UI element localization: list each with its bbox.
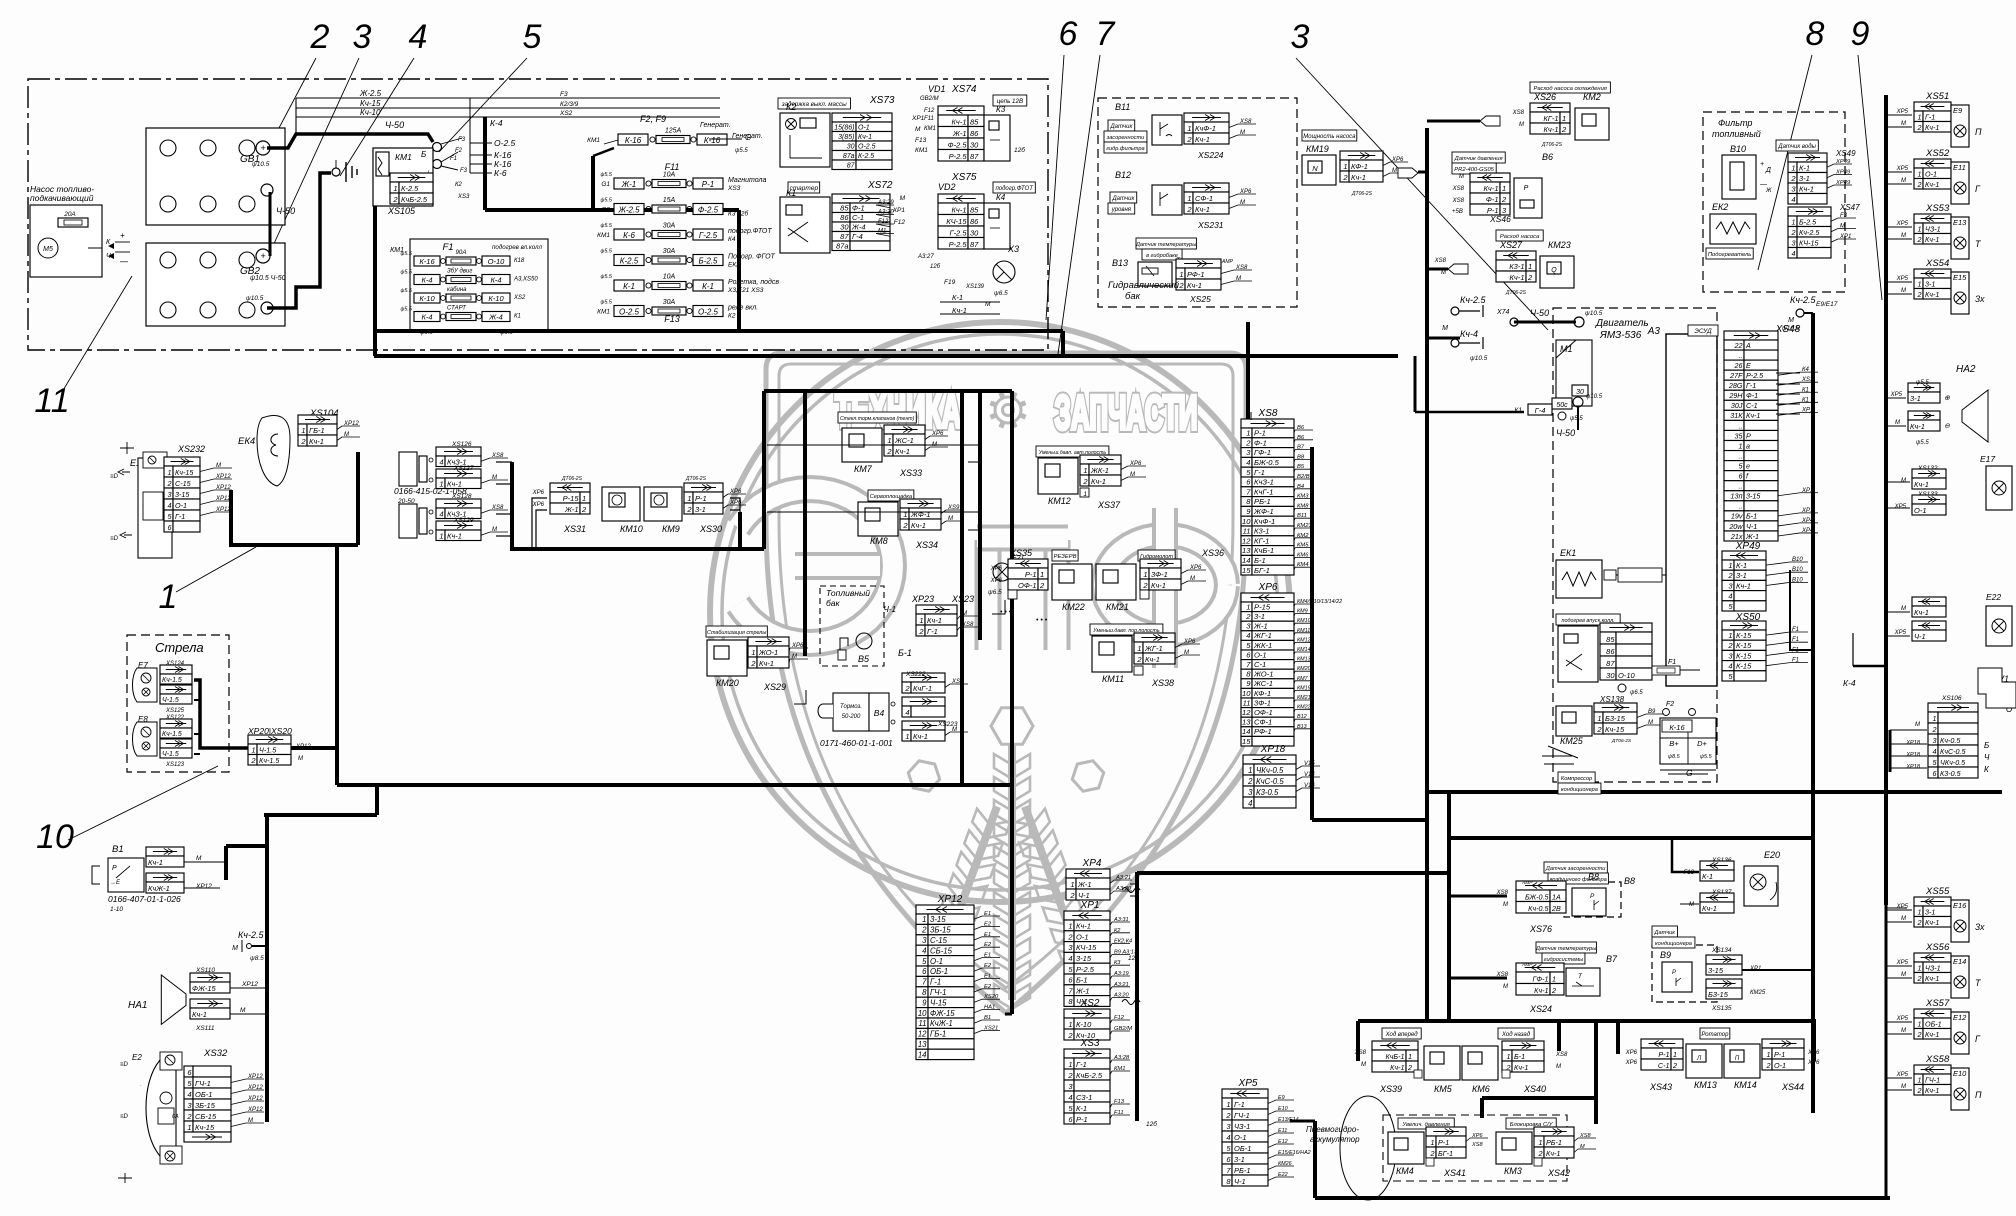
svg-text:XS52: XS52 [1925, 148, 1950, 159]
svg-text:Топливный: Топливный [826, 588, 870, 598]
svg-text:Кч-1: Кч-1 [309, 437, 324, 446]
svg-text:М: М [1901, 233, 1906, 239]
svg-text:4: 4 [439, 457, 443, 466]
svg-text:К-1: К-1 [1076, 1104, 1087, 1113]
svg-text:М: М [1689, 902, 1694, 908]
svg-text:F3: F3 [1840, 213, 1848, 219]
svg-text:К-15: К-15 [1736, 662, 1752, 671]
svg-text:КМ8: КМ8 [1297, 503, 1309, 509]
svg-text:87: 87 [847, 162, 856, 169]
svg-text:35: 35 [1735, 431, 1744, 440]
svg-text:К-6: К-6 [623, 231, 635, 240]
svg-text:К4: К4 [728, 236, 736, 243]
svg-text:XS58: XS58 [1925, 1054, 1950, 1065]
svg-text:КМ1: КМ1 [597, 309, 610, 316]
svg-text:ЖФ-1: ЖФ-1 [1253, 507, 1274, 516]
svg-text:Е11: Е11 [1278, 1128, 1287, 1134]
svg-text:3: 3 [922, 936, 927, 945]
svg-text:А3: А3 [1647, 326, 1661, 337]
svg-text:F12: F12 [1114, 1015, 1125, 1021]
svg-text:Ж-1: Ж-1 [1075, 986, 1090, 995]
svg-text:Двигатель: Двигатель [1595, 318, 1649, 329]
svg-text:1: 1 [1507, 1052, 1511, 1061]
svg-text:в гидробаке: в гидробаке [1146, 253, 1178, 259]
svg-text:1: 1 [1070, 880, 1074, 889]
svg-text:ХР5: ХР5 [1894, 630, 1907, 636]
svg-text:Ж-4: Ж-4 [488, 313, 503, 322]
svg-text:Ж-4: Ж-4 [851, 222, 866, 231]
svg-text:Р-1: Р-1 [1025, 570, 1037, 579]
svg-text:О-1: О-1 [930, 957, 943, 966]
svg-text:1: 1 [168, 468, 172, 477]
svg-text:13: 13 [918, 1040, 927, 1049]
svg-text:VD2: VD2 [938, 182, 956, 192]
svg-text:4: 4 [1068, 1093, 1072, 1102]
svg-text:В10: В10 [1792, 577, 1803, 583]
svg-text:30А: 30А [663, 248, 676, 255]
svg-text:≡D: ≡D [120, 1114, 129, 1120]
svg-text:Д: Д [1765, 167, 1771, 174]
svg-text:F19: F19 [944, 279, 956, 286]
svg-text:бак: бак [1125, 291, 1141, 302]
svg-text:БГ-1: БГ-1 [1438, 1149, 1453, 1158]
svg-text:F1: F1 [1792, 658, 1799, 664]
svg-text:13: 13 [1242, 546, 1251, 555]
svg-text:Кч-1: Кч-1 [447, 531, 462, 540]
svg-text:Кч-1: Кч-1 [1195, 205, 1210, 214]
svg-text:⊕: ⊕ [1944, 395, 1950, 402]
svg-text:30: 30 [970, 140, 979, 149]
svg-text:ЖО-1: ЖО-1 [758, 648, 778, 657]
svg-text:Ж-1: Ж-1 [564, 505, 579, 514]
svg-text:Кч-1: Кч-1 [1925, 290, 1939, 299]
svg-text:Ж-1: Ж-1 [621, 180, 636, 189]
svg-text:XS105: XS105 [387, 206, 416, 216]
svg-text:С-1: С-1 [1254, 660, 1266, 669]
svg-text:Ч-1.5: Ч-1.5 [162, 697, 179, 704]
svg-text:М: М [1459, 174, 1464, 180]
svg-text:2: 2 [1067, 1031, 1073, 1040]
svg-text:Е7: Е7 [138, 661, 148, 670]
svg-text:10: 10 [918, 1009, 927, 1018]
svg-text:Ф-1: Ф-1 [1746, 391, 1758, 400]
svg-text:Е9/Е17: Е9/Е17 [1816, 301, 1838, 308]
svg-text:В8: В8 [1624, 876, 1635, 886]
svg-text:К-16: К-16 [1669, 723, 1685, 732]
svg-text:ХР4: ХР4 [1801, 528, 1814, 534]
svg-text:2: 2 [1672, 1061, 1677, 1070]
svg-text:Е15/Е16/НА2: Е15/Е16/НА2 [1278, 1150, 1311, 1156]
svg-text:ХР5: ХР5 [1896, 1016, 1909, 1022]
svg-text:2: 2 [186, 1112, 192, 1121]
svg-text:В9: В9 [1660, 950, 1671, 960]
svg-text:КчС-0.5: КчС-0.5 [1256, 777, 1284, 786]
svg-text:Датчик: Датчик [1109, 124, 1133, 130]
svg-text:XS44: XS44 [1781, 1082, 1804, 1092]
svg-text:2: 2 [581, 505, 587, 514]
svg-text:К3-0.5: К3-0.5 [1256, 788, 1279, 797]
svg-text:Б3-15: Б3-15 [1708, 990, 1729, 999]
svg-text:Ч-50: Ч-50 [276, 206, 295, 216]
svg-text:1: 1 [887, 436, 891, 445]
svg-text:G: G [745, 133, 751, 142]
svg-text:1: 1 [1343, 162, 1347, 171]
svg-text:2: 2 [1766, 1061, 1771, 1070]
svg-text:4: 4 [905, 708, 909, 717]
svg-text:..: .. [1739, 351, 1743, 360]
svg-text:F2: F2 [1666, 701, 1674, 708]
svg-text:М: М [1648, 720, 1653, 726]
svg-text:1: 1 [1226, 1100, 1230, 1109]
svg-text:А3:21: А3:21 [1115, 875, 1131, 881]
svg-text:12б: 12б [930, 264, 941, 270]
svg-text:4: 4 [1728, 662, 1732, 671]
svg-text:1: 1 [1918, 169, 1922, 178]
svg-text:КМ6: КМ6 [1472, 1084, 1490, 1094]
svg-text:КМ25: КМ25 [1750, 990, 1766, 996]
svg-text:Ч-1.5: Ч-1.5 [259, 745, 277, 754]
svg-text:2: 2 [1538, 1149, 1543, 1158]
svg-text:XS127: XS127 [453, 465, 474, 472]
svg-text:2: 2 [902, 521, 908, 530]
svg-text:О-2.5: О-2.5 [619, 308, 640, 317]
svg-text:XS134: XS134 [1711, 947, 1732, 954]
svg-text:Ж-1: Ж-1 [1253, 622, 1268, 631]
svg-text:А3:28: А3:28 [1113, 1055, 1130, 1061]
svg-text:ХР5: ХР5 [1896, 221, 1909, 227]
svg-text:Кч-1: Кч-1 [192, 1010, 207, 1019]
svg-text:М: М [1190, 576, 1195, 582]
svg-text:4: 4 [1792, 249, 1796, 258]
svg-text:ХР18: ХР18 [1905, 740, 1921, 746]
svg-text:Е12: Е12 [1953, 1013, 1967, 1022]
svg-text:К3-0.5: К3-0.5 [1940, 769, 1962, 778]
svg-text:ГФ-1: ГФ-1 [1532, 974, 1548, 983]
svg-text:• • •: • • • [1036, 617, 1048, 624]
svg-text:XS40: XS40 [1523, 1084, 1546, 1094]
svg-text:М1: М1 [878, 229, 886, 235]
svg-text:М: М [298, 756, 303, 762]
svg-text:реле вкл.: реле вкл. [727, 305, 758, 312]
svg-text:КчГ-1: КчГ-1 [913, 684, 932, 693]
svg-text:АМР: АМР [1521, 880, 1533, 886]
svg-text:86: 86 [970, 217, 979, 226]
svg-text:2: 2 [686, 505, 692, 514]
svg-text:ХР12: ХР12 [247, 1107, 263, 1113]
svg-text:XS75: XS75 [951, 172, 977, 183]
svg-text:Е1: Е1 [984, 932, 991, 938]
svg-text:Р: Р [1590, 893, 1595, 900]
svg-text:С3-1: С3-1 [1076, 1093, 1092, 1102]
svg-text:4: 4 [168, 501, 172, 510]
svg-text:2: 2 [1791, 228, 1796, 237]
svg-text:ЕК2: ЕК2 [1712, 202, 1728, 212]
svg-text:6: 6 [922, 967, 927, 976]
svg-text:Кч-1: Кч-1 [1484, 184, 1499, 193]
svg-text:XS33: XS33 [899, 468, 922, 478]
svg-text:Р: Р [1524, 185, 1529, 192]
svg-text:Е2: Е2 [984, 942, 992, 948]
svg-text:ЖГ-1: ЖГ-1 [1144, 644, 1163, 653]
svg-text:13п: 13п [1731, 492, 1743, 501]
svg-text:—: — [1759, 181, 1768, 188]
svg-text:КМ1: КМ1 [1114, 1066, 1125, 1072]
svg-text:Кч-1: Кч-1 [1390, 1063, 1404, 1072]
svg-text:КМ7: КМ7 [1297, 676, 1309, 682]
svg-text:2: 2 [1501, 195, 1507, 204]
svg-text:А: А [1745, 341, 1751, 350]
svg-text:XS55: XS55 [1925, 886, 1950, 897]
svg-text:11: 11 [1243, 698, 1251, 707]
svg-text:XS111: XS111 [195, 1025, 215, 1032]
svg-text:М: М [1901, 1084, 1906, 1090]
svg-text:КМ10: КМ10 [1297, 618, 1311, 624]
svg-text:1: 1 [1137, 644, 1141, 653]
svg-text:1: 1 [1431, 1138, 1435, 1147]
svg-text:Кч-1: Кч-1 [1151, 581, 1166, 590]
svg-text:М: М [1519, 122, 1524, 128]
svg-text:Б-1: Б-1 [1746, 512, 1757, 521]
svg-text:2: 2 [1067, 1071, 1073, 1080]
svg-text:ГЧ-1: ГЧ-1 [1234, 1111, 1250, 1120]
svg-text:1: 1 [1728, 561, 1732, 570]
svg-text:КМ19: КМ19 [1297, 685, 1311, 691]
svg-text:ХР1: ХР1 [911, 115, 925, 122]
svg-text:Кч-0.5: Кч-0.5 [1528, 904, 1549, 913]
svg-text:..: .. [1739, 482, 1743, 491]
svg-text:2: 2 [1917, 180, 1922, 189]
svg-text:Г-1: Г-1 [927, 627, 938, 636]
svg-text:2: 2 [1727, 641, 1733, 650]
svg-text:П: П [1975, 1090, 1982, 1100]
svg-text:ХР6: ХР6 [1183, 639, 1196, 645]
svg-text:12б: 12б [1128, 954, 1139, 962]
svg-text:О-1: О-1 [175, 501, 187, 510]
svg-text:А3:31: А3:31 [1113, 917, 1129, 923]
svg-text:Кч-1: Кч-1 [952, 117, 967, 126]
svg-text:XS8: XS8 [1452, 186, 1465, 192]
svg-text:КМ9: КМ9 [662, 524, 680, 534]
svg-text:1: 1 [252, 745, 256, 754]
svg-text:1: 1 [301, 426, 305, 435]
svg-text:СБ-15: СБ-15 [195, 1112, 217, 1121]
svg-text:ХР6: ХР6 [1807, 1060, 1820, 1066]
svg-text:ХР6: ХР6 [1625, 1050, 1638, 1056]
svg-text:ХР5: ХР5 [1238, 1078, 1258, 1089]
svg-text:Кч-1: Кч-1 [1546, 1149, 1560, 1158]
svg-text:XS73: XS73 [869, 95, 895, 106]
svg-text:ХР18: ХР18 [1905, 752, 1921, 758]
svg-text:О-2.5: О-2.5 [698, 308, 719, 317]
svg-text:3-1: 3-1 [1234, 1155, 1245, 1164]
svg-text:А3:21: А3:21 [1113, 982, 1129, 988]
svg-text:XS29: XS29 [763, 682, 786, 692]
svg-text:XS34: XS34 [915, 540, 938, 550]
svg-text:А3:19: А3:19 [1113, 971, 1129, 977]
svg-text:XS2: XS2 [559, 110, 573, 117]
svg-text:М: М [1580, 1144, 1585, 1150]
svg-text:4: 4 [1933, 747, 1937, 756]
svg-text:ХР5: ХР5 [1894, 504, 1907, 510]
svg-text:цепь 12В: цепь 12В [997, 98, 1023, 105]
svg-text:1-10: 1-10 [110, 906, 123, 913]
svg-text:F12: F12 [878, 219, 889, 225]
svg-text:А3:27: А3:27 [917, 254, 934, 260]
svg-text:ЯМЗ-536: ЯМЗ-536 [1599, 330, 1642, 341]
svg-text:3(85): 3(85) [838, 134, 854, 141]
svg-text:1: 1 [1933, 714, 1937, 723]
svg-text:XS31: XS31 [563, 524, 586, 534]
svg-text:1: 1 [1040, 570, 1044, 579]
svg-text:30: 30 [847, 143, 855, 150]
svg-text:Кч-1: Кч-1 [1914, 608, 1929, 617]
svg-text:4: 4 [1791, 195, 1795, 204]
svg-text:М: М [1901, 916, 1906, 922]
svg-text:10А: 10А [663, 274, 676, 281]
svg-text:Кч-1: Кч-1 [1799, 184, 1814, 193]
svg-text:ХР1: ХР1 [1801, 488, 1813, 494]
svg-text:ψ6.5: ψ6.5 [1630, 690, 1643, 696]
svg-text:4: 4 [1246, 631, 1250, 640]
svg-text:2: 2 [1136, 655, 1142, 664]
svg-text:ХР12: ХР12 [937, 894, 963, 905]
svg-text:ЧЗ-1: ЧЗ-1 [1925, 224, 1941, 233]
svg-text:Кч-2.5: Кч-2.5 [1799, 228, 1820, 237]
svg-text:В10: В10 [1792, 557, 1803, 563]
svg-text:ψ6.5: ψ6.5 [994, 290, 1008, 297]
svg-text:Е10: Е10 [1953, 1069, 1967, 1078]
svg-text:F11: F11 [665, 162, 680, 172]
svg-text:Р-1: Р-1 [1438, 1138, 1449, 1147]
svg-text:Р-2.5: Р-2.5 [1076, 965, 1095, 974]
svg-text:3х: 3х [1975, 922, 1985, 932]
svg-text:ЕК2: ЕК2 [728, 262, 740, 269]
svg-text:КМ1: КМ1 [915, 147, 928, 154]
svg-text:К2: К2 [728, 313, 736, 320]
svg-text:2: 2 [1917, 1086, 1922, 1095]
svg-text:1: 1 [1918, 1075, 1922, 1084]
svg-text:Е10: Е10 [1278, 1106, 1288, 1112]
svg-text:О-1: О-1 [858, 124, 870, 131]
svg-text:2: 2 [921, 926, 927, 935]
svg-text:Е1: Е1 [984, 911, 991, 917]
svg-text:КМ1: КМ1 [924, 126, 936, 132]
svg-text:А3:29: А3:29 [877, 200, 894, 206]
svg-text:М: М [1915, 722, 1920, 728]
svg-text:1: 1 [439, 531, 443, 540]
svg-text:Кч-1: Кч-1 [1510, 273, 1525, 282]
svg-text:ХР12: ХР12 [195, 883, 212, 890]
svg-text:XS123: XS123 [165, 762, 185, 768]
svg-text:XS32: XS32 [203, 1048, 228, 1059]
svg-text:12: 12 [1242, 708, 1251, 717]
svg-text:КФ-1: КФ-1 [1254, 689, 1271, 698]
svg-text:К1: К1 [514, 314, 521, 320]
svg-text:КГ-1: КГ-1 [1543, 114, 1558, 123]
svg-text:ХР18: ХР18 [1905, 764, 1921, 770]
svg-text:ψ5.5: ψ5.5 [1700, 754, 1713, 760]
svg-text:30: 30 [1606, 671, 1615, 680]
svg-text:Г-1: Г-1 [1076, 1060, 1087, 1069]
svg-text:бак: бак [826, 598, 841, 608]
svg-text:26: 26 [1734, 361, 1743, 370]
svg-text:КчБ-2.5: КчБ-2.5 [401, 195, 428, 204]
svg-text:20w: 20w [1728, 522, 1743, 531]
svg-text:ХР6: ХР6 [532, 502, 545, 508]
svg-text:М: М [1895, 420, 1900, 426]
svg-text:ψ5.5: ψ5.5 [600, 274, 613, 280]
svg-text:85: 85 [1606, 635, 1615, 644]
svg-text:2: 2 [1178, 281, 1184, 290]
svg-text:GB2/М: GB2/М [1114, 1026, 1132, 1032]
svg-text:В11: В11 [1297, 513, 1307, 519]
svg-text:КЧ-15: КЧ-15 [946, 217, 967, 226]
svg-text:Г-1: Г-1 [1254, 468, 1265, 477]
svg-text:ЧКч-0.5: ЧКч-0.5 [1256, 766, 1284, 775]
svg-text:М: М [492, 527, 497, 533]
svg-text:Е1: Е1 [984, 953, 991, 959]
svg-text:Кч-1: Кч-1 [913, 732, 928, 741]
svg-text:В7: В7 [1606, 954, 1618, 964]
svg-text:ХР4: ХР4 [1082, 858, 1102, 869]
svg-text:ЕК4: ЕК4 [238, 436, 255, 447]
svg-text:Ж-2.5: Ж-2.5 [359, 89, 382, 98]
svg-text:Подогреватель: Подогреватель [1708, 252, 1751, 258]
svg-text:НА1: НА1 [984, 1005, 995, 1011]
svg-text:20А: 20А [63, 211, 76, 218]
svg-text:К-1: К-1 [1702, 872, 1713, 881]
svg-text:1: 1 [1539, 1138, 1543, 1147]
svg-text:Р-1: Р-1 [1076, 1115, 1088, 1124]
svg-text:Ход вперед: Ход вперед [1385, 1032, 1419, 1038]
svg-text:F11: F11 [1114, 1110, 1124, 1116]
svg-text:XS8: XS8 [961, 622, 974, 628]
svg-text:ХР6: ХР6 [990, 578, 1003, 584]
svg-text:XS47: XS47 [1839, 203, 1860, 212]
svg-text:2: 2 [750, 659, 756, 668]
svg-text:1: 1 [1187, 194, 1191, 203]
svg-text:Кч-1: Кч-1 [1145, 655, 1160, 664]
svg-text:Ч-1: Ч-1 [1234, 1177, 1246, 1186]
svg-text:М: М [1184, 650, 1189, 656]
svg-text:28G: 28G [1728, 381, 1743, 390]
svg-text:Кч-1: Кч-1 [1925, 1030, 1939, 1039]
svg-text:кабина: кабина [447, 287, 467, 293]
svg-text:ЖК-1: ЖК-1 [1253, 641, 1272, 650]
svg-text:ХР12: ХР12 [215, 474, 231, 480]
svg-text:6А: 6А [172, 1114, 179, 1120]
svg-text:Q: Q [1551, 267, 1557, 274]
svg-text:1: 1 [903, 510, 907, 519]
svg-text:Ж-2.5: Ж-2.5 [617, 206, 640, 215]
svg-text:В6: В6 [1542, 152, 1553, 162]
svg-text:Кч-1: Кч-1 [148, 858, 163, 867]
svg-text:Ж: Ж [1765, 188, 1772, 194]
svg-text:F2, F9: F2, F9 [640, 114, 666, 124]
svg-text:Е1: Е1 [984, 973, 991, 979]
svg-text:Р-15: Р-15 [563, 494, 580, 503]
svg-text:В5: В5 [1297, 464, 1305, 470]
svg-text:1: 1 [1918, 1019, 1922, 1028]
svg-text:10А: 10А [663, 172, 676, 179]
svg-text:XS2: XS2 [513, 295, 526, 301]
svg-text:В5: В5 [858, 654, 870, 664]
svg-text:ХР1: ХР1 [1839, 234, 1851, 240]
svg-text:XS41: XS41 [1443, 1168, 1466, 1178]
svg-text:XS8: XS8 [491, 505, 504, 511]
svg-text:87: 87 [970, 240, 979, 249]
svg-text:ХР12: ХР12 [343, 421, 359, 427]
